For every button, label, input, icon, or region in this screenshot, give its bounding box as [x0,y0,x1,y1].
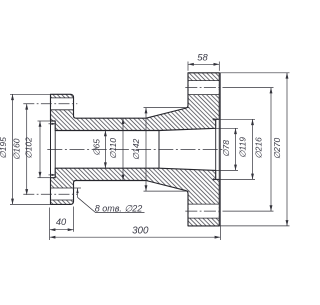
svg-text:∅65: ∅65 [91,139,101,156]
dimension D78 [235,128,237,170]
dimension D110 [122,118,124,180]
dimension D160 [26,104,28,195]
main centerline [47,148,223,150]
svg-text:8 отв. ∅22: 8 отв. ∅22 [95,203,143,213]
dimension 300 [50,236,221,238]
upper body section (hatched) [51,73,220,131]
dimension D142 [145,108,147,192]
svg-text:40: 40 [56,217,67,227]
bore transition edge (top) [158,131,160,169]
svg-text:∅160: ∅160 [11,138,21,160]
right flange bolt circle centerlines [185,87,224,89]
svg-text:300: 300 [132,226,149,237]
dimension 40 [49,208,51,241]
left flange bolt circle centerlines [23,103,77,105]
left recess floor edge across bore [54,131,56,169]
right flange bolt hole (bottom) [189,204,219,218]
svg-text:58: 58 [197,52,208,63]
dimension D195 [12,94,14,204]
dimension D102 [39,121,41,178]
leader: 8 holes D22 [74,187,82,189]
left face edge across bore [50,121,52,178]
svg-text:∅102: ∅102 [24,137,34,159]
right flange bolt hole (top) [189,81,219,95]
svg-text:∅270: ∅270 [272,137,282,159]
left flange bolt hole (top) [51,98,73,110]
dimension D65 [104,131,106,169]
right recess corner arrows [213,118,217,120]
svg-text:∅216: ∅216 [254,137,264,159]
svg-text:∅119: ∅119 [238,137,248,158]
svg-text:∅78: ∅78 [221,140,231,157]
dimension D216 [270,88,272,212]
left flange bolt hole (bottom) [51,188,73,200]
svg-text:∅195: ∅195 [0,137,8,159]
lower body section (hatched) [51,168,220,226]
dimension D270 [286,73,288,226]
left recess arrows [51,123,56,125]
svg-text:∅142: ∅142 [131,138,141,160]
right face second line [219,73,221,240]
dimension 58 [187,62,189,71]
dimension D119 [252,119,254,179]
svg-text:∅110: ∅110 [108,138,118,159]
right recess step edge across bore [215,128,217,170]
right face edge across bore [218,119,220,179]
